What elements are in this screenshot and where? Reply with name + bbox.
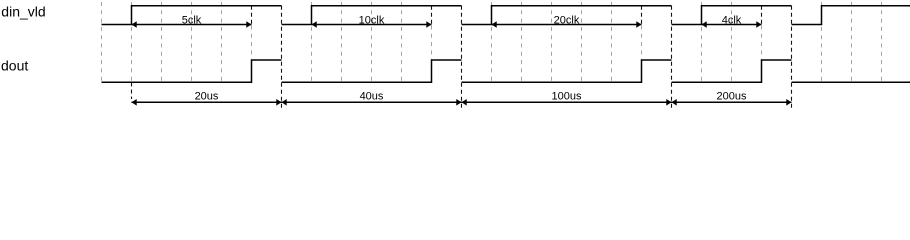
svg-text:200us: 200us — [717, 90, 747, 102]
svg-text:100us: 100us — [552, 90, 582, 102]
svg-text:40us: 40us — [360, 90, 384, 102]
svg-text:4clk: 4clk — [722, 15, 742, 27]
svg-text:5clk: 5clk — [182, 15, 202, 27]
svg-text:20us: 20us — [195, 90, 219, 102]
svg-text:20clk: 20clk — [554, 15, 580, 27]
svg-text:10clk: 10clk — [359, 15, 385, 27]
svg-text:dout: dout — [1, 58, 28, 74]
svg-text:din_vld: din_vld — [1, 4, 45, 20]
